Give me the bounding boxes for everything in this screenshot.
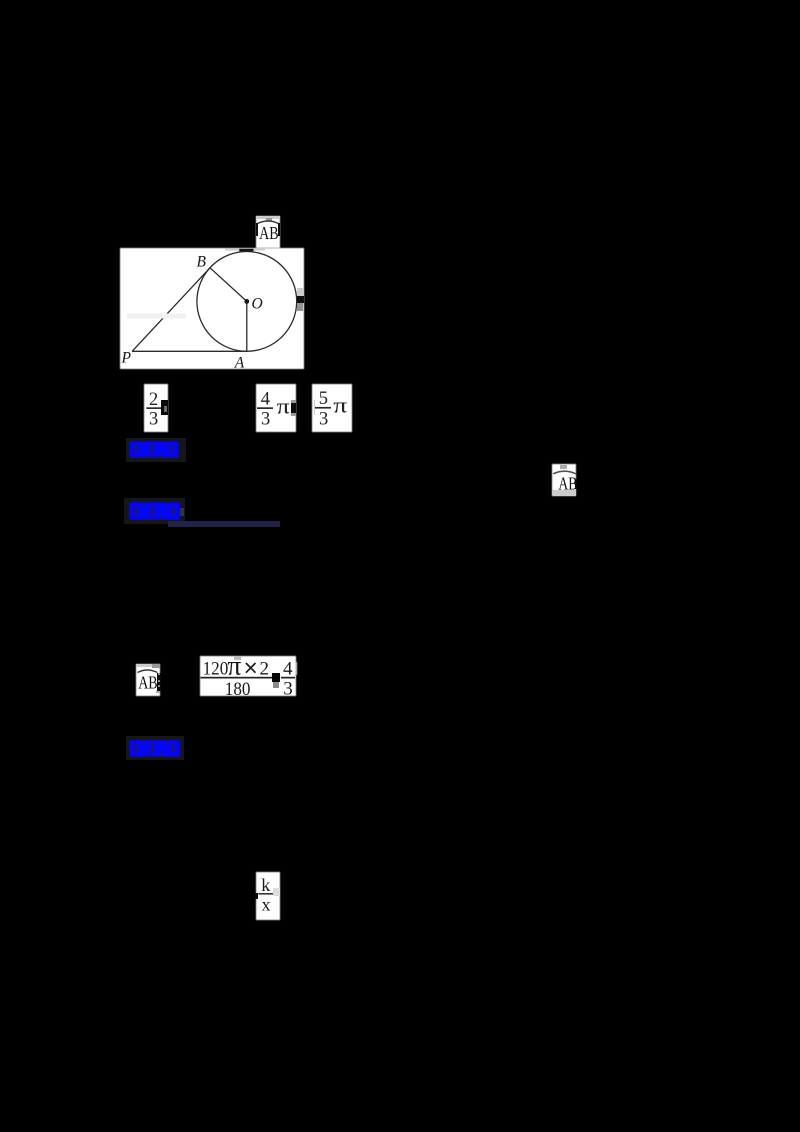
svg-text:3: 3 <box>283 678 293 696</box>
svg-text:3: 3 <box>319 409 328 429</box>
svg-text:AB: AB <box>259 225 278 240</box>
svg-text:120: 120 <box>203 658 229 679</box>
svg-text:AB: AB <box>138 674 157 690</box>
svg-text:π: π <box>277 395 290 419</box>
svg-text:π: π <box>333 394 347 418</box>
svg-text:O: O <box>251 296 262 313</box>
svg-text:4: 4 <box>283 659 293 680</box>
svg-text:3: 3 <box>261 409 270 429</box>
svg-text:A: A <box>233 354 244 369</box>
svg-text:4: 4 <box>261 389 270 409</box>
svg-text:180: 180 <box>225 678 251 696</box>
svg-text:5: 5 <box>319 389 328 409</box>
svg-text:k: k <box>261 875 270 895</box>
svg-text:B: B <box>196 254 206 271</box>
svg-text:π: π <box>227 656 241 680</box>
svg-text:2: 2 <box>149 390 158 410</box>
svg-text:P: P <box>120 349 131 366</box>
svg-text:3: 3 <box>149 409 158 429</box>
svg-text:2: 2 <box>260 659 270 680</box>
svg-text:x: x <box>262 895 271 915</box>
